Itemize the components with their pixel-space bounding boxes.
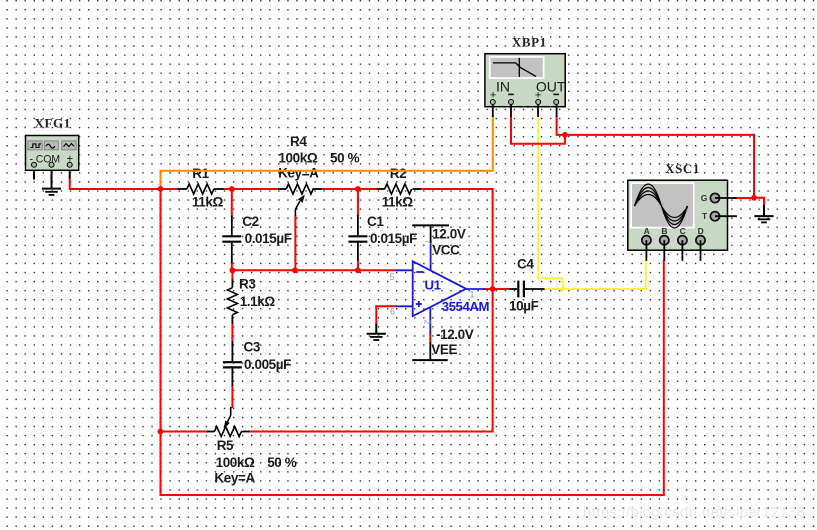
svg-text:50 %: 50 % — [330, 151, 360, 166]
svg-text:R2: R2 — [390, 166, 406, 181]
svg-text:A: A — [644, 226, 650, 236]
svg-text:R1: R1 — [192, 166, 209, 181]
svg-text:C1: C1 — [367, 214, 384, 229]
svg-text:50 %: 50 % — [267, 455, 297, 470]
svg-text:R3: R3 — [239, 277, 256, 292]
svg-text:XFG1: XFG1 — [35, 116, 71, 131]
svg-text:VCC: VCC — [432, 242, 460, 257]
svg-text:COM: COM — [36, 153, 60, 165]
svg-text:-12.0V: -12.0V — [436, 327, 474, 342]
svg-text:100kΩ: 100kΩ — [278, 151, 317, 166]
svg-text:T: T — [702, 211, 708, 221]
svg-text:100kΩ: 100kΩ — [216, 455, 255, 470]
svg-text:6: 6 — [390, 307, 395, 317]
svg-text:11kΩ: 11kΩ — [192, 194, 224, 209]
svg-text:Key=A: Key=A — [278, 165, 319, 180]
svg-text:7: 7 — [424, 240, 434, 245]
svg-text:Key=A: Key=A — [214, 470, 255, 485]
svg-text:2: 2 — [423, 320, 433, 325]
svg-text:IN: IN — [496, 79, 510, 95]
svg-text:0.015µF: 0.015µF — [245, 231, 292, 246]
svg-text:C: C — [680, 226, 686, 236]
svg-text:12.0V: 12.0V — [432, 226, 466, 241]
svg-text:1.1kΩ: 1.1kΩ — [240, 294, 276, 309]
svg-text:R5: R5 — [217, 438, 234, 453]
svg-text:0.005µF: 0.005µF — [244, 357, 291, 372]
svg-text:G: G — [701, 193, 708, 203]
svg-text:11kΩ: 11kΩ — [382, 194, 414, 209]
svg-text:D: D — [698, 226, 704, 236]
svg-text:1: 1 — [470, 290, 475, 300]
svg-text:C2: C2 — [242, 214, 258, 229]
svg-text:XSC1: XSC1 — [665, 161, 700, 176]
svg-text:3554AM: 3554AM — [442, 299, 490, 314]
svg-text:B: B — [661, 226, 667, 236]
svg-text:10µF: 10µF — [509, 299, 539, 314]
svg-text:VEE: VEE — [431, 342, 457, 357]
svg-text:R4: R4 — [290, 134, 307, 149]
svg-text:0.015µF: 0.015µF — [370, 231, 417, 246]
svg-text:XBP1: XBP1 — [512, 34, 547, 49]
svg-text:5: 5 — [390, 272, 395, 282]
svg-text:https://blog.csdn.net/siper121: https://blog.csdn.net/siper12138 — [583, 504, 805, 521]
svg-text:C4: C4 — [517, 256, 534, 271]
svg-text:U1: U1 — [425, 278, 441, 293]
svg-text:C3: C3 — [244, 339, 261, 354]
